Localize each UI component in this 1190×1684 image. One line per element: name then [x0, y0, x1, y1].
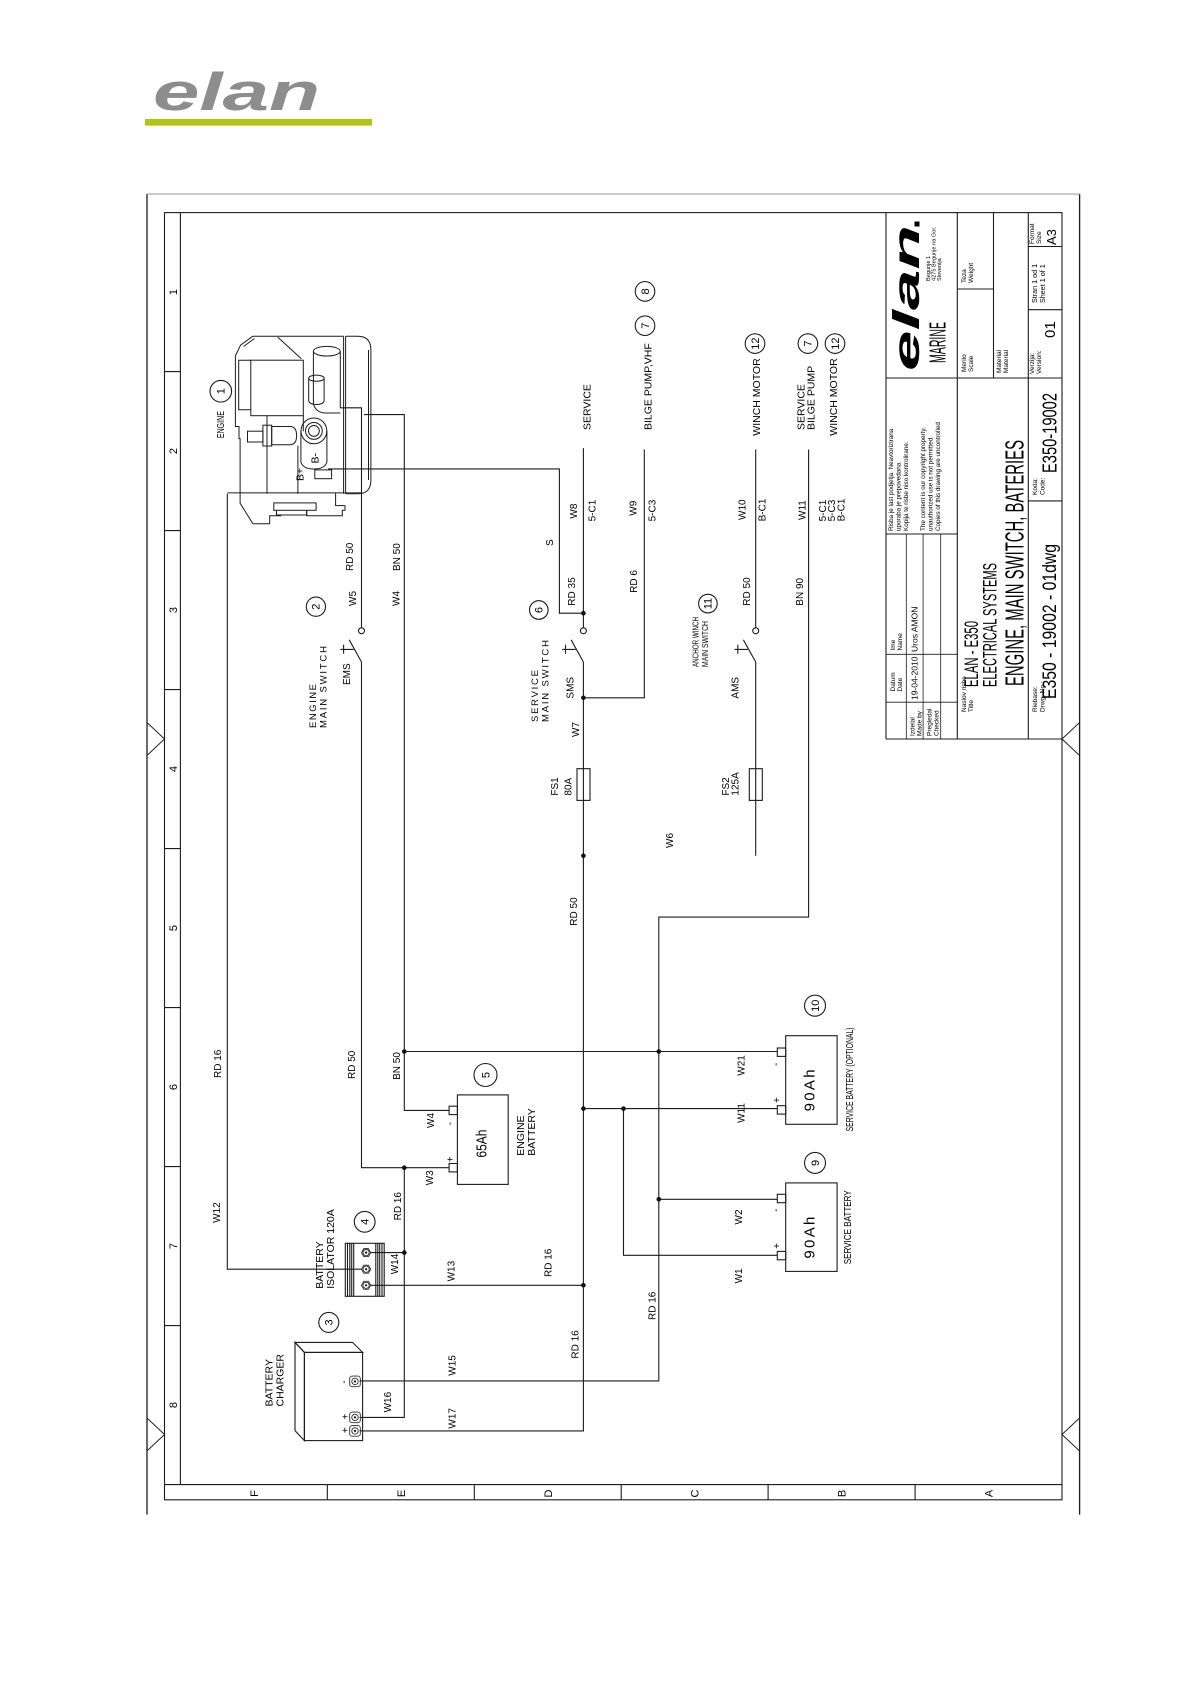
- svg-text:3: 3: [168, 607, 180, 613]
- svg-text:W15: W15: [448, 1355, 459, 1376]
- svg-text:7: 7: [640, 323, 652, 329]
- svg-text:D: D: [543, 1489, 555, 1497]
- svg-text:RD 35: RD 35: [567, 577, 578, 606]
- svg-text:Material: Material: [1003, 349, 1010, 373]
- wire W12 RD16: engine alternator to isolator middle terminal: [227, 494, 361, 1269]
- svg-text:RD 16: RD 16: [393, 1192, 404, 1221]
- svg-text:ANCHOR WINCH: ANCHOR WINCH: [692, 617, 701, 667]
- svg-text:Verzija:: Verzija:: [1029, 352, 1036, 374]
- svg-text:B-C1: B-C1: [836, 498, 847, 521]
- svg-text:BN 50: BN 50: [392, 1052, 403, 1080]
- svg-text:10: 10: [810, 1000, 822, 1012]
- svg-text:Slovenija: Slovenija: [937, 257, 943, 281]
- wire W7 RD50: SMS down through FS1 to bottom rail: [360, 662, 584, 1431]
- svg-text:6: 6: [534, 607, 546, 613]
- svg-text:Teza: Teza: [961, 269, 968, 283]
- svg-text:B-C1: B-C1: [758, 498, 769, 521]
- svg-text:Name: Name: [897, 633, 904, 651]
- svg-text:W17: W17: [448, 1408, 459, 1429]
- svg-text:W12: W12: [212, 1202, 223, 1223]
- svg-text:W6: W6: [665, 833, 676, 848]
- svg-text:W9: W9: [629, 500, 640, 515]
- svg-text:12: 12: [830, 337, 842, 349]
- elan company logo: [145, 63, 372, 126]
- svg-text:+: +: [772, 1243, 783, 1249]
- svg-text:W11: W11: [736, 1103, 747, 1123]
- svg-text:BN 50: BN 50: [392, 543, 403, 571]
- svg-text:BATTERY: BATTERY: [526, 1108, 538, 1155]
- svg-text:elan: elan: [886, 225, 927, 371]
- svg-text:Pregledal: Pregledal: [927, 708, 934, 736]
- svg-text:SERVICE: SERVICE: [582, 384, 594, 430]
- drawing frame: [147, 194, 1080, 1515]
- svg-text:Version:: Version:: [1036, 350, 1043, 374]
- component number 8 (vhf): [635, 282, 655, 302]
- svg-text:Riebase:: Riebase:: [1032, 686, 1039, 712]
- svg-text:5-C3: 5-C3: [648, 499, 659, 521]
- svg-text:5: 5: [168, 925, 180, 931]
- fuse FS1 80A: [577, 769, 590, 801]
- svg-text:Merilo: Merilo: [961, 354, 968, 372]
- svg-text:65Ah: 65Ah: [474, 1130, 491, 1158]
- svg-text:WINCH MOTOR: WINCH MOTOR: [751, 358, 763, 436]
- wire W1: service battery plus: [624, 1109, 778, 1256]
- svg-text:6: 6: [168, 1084, 180, 1090]
- svg-text:RD 50: RD 50: [345, 542, 356, 571]
- svg-text:Made by: Made by: [917, 710, 924, 736]
- component number 5: [474, 1064, 497, 1087]
- svg-text:11: 11: [703, 598, 715, 609]
- wire W2: service battery minus: [659, 1198, 778, 1200]
- svg-text:Uros AMON: Uros AMON: [910, 607, 920, 652]
- svg-text:90Ah: 90Ah: [801, 1217, 818, 1259]
- svg-text:Risba je last podjetja. Neavto: Risba je last podjetja. Neavtorizirana: [888, 428, 895, 531]
- svg-text:F: F: [249, 1490, 261, 1497]
- svg-text:Format: Format: [1029, 223, 1036, 244]
- svg-text:7: 7: [168, 1243, 180, 1249]
- svg-text:W13: W13: [446, 1260, 457, 1281]
- component number 2: [306, 597, 325, 616]
- svg-text:W5: W5: [348, 591, 359, 606]
- svg-text:AMS: AMS: [731, 677, 742, 699]
- svg-text:BN 90: BN 90: [795, 577, 806, 605]
- component number 10: [805, 995, 826, 1016]
- svg-text:SERVICE BATTERY (OPTIONAL): SERVICE BATTERY (OPTIONAL): [845, 1027, 856, 1131]
- svg-text:MARINE: MARINE: [925, 322, 951, 363]
- svg-text:19-04-2010: 19-04-2010: [910, 656, 920, 700]
- svg-text:W3: W3: [425, 1170, 436, 1185]
- svg-text:7: 7: [803, 341, 815, 347]
- wire S RD: engine B+ to service switch node: [328, 469, 583, 613]
- battery charger: [295, 1342, 363, 1440]
- svg-text:CHARGER: CHARGER: [275, 1354, 287, 1407]
- svg-text:SMS: SMS: [566, 677, 577, 699]
- switch AWS (anchor winch main switch): [753, 628, 759, 634]
- wire W13: isolator lower terminal to RD50 bus: [372, 1284, 584, 1286]
- component number 1: [210, 380, 232, 402]
- svg-text:-: -: [771, 1209, 782, 1212]
- component number 6: [530, 601, 549, 620]
- svg-text:elan: elan: [153, 63, 320, 122]
- svg-text:Checked: Checked: [934, 710, 941, 736]
- wire BN50 branch: engine battery minus to minus bus: [404, 1051, 659, 1053]
- component number 3: [319, 1312, 339, 1332]
- component number 7 (bilge pump 2): [798, 334, 818, 354]
- svg-text:Weight: Weight: [968, 263, 975, 283]
- svg-text:W10: W10: [738, 499, 749, 520]
- svg-text:A3: A3: [1044, 229, 1059, 245]
- switch EMS (engine main switch): [359, 628, 365, 634]
- svg-text:5-C1: 5-C1: [588, 499, 599, 521]
- svg-text:W2: W2: [734, 1209, 745, 1224]
- svg-text:01: 01: [1042, 321, 1059, 338]
- svg-text:RD 16: RD 16: [543, 1248, 554, 1277]
- svg-text:RD 6: RD 6: [629, 570, 640, 593]
- svg-text:3: 3: [324, 1319, 336, 1325]
- svg-text:ENGINE: ENGINE: [216, 411, 227, 438]
- svg-text:ISOLATOR 120A: ISOLATOR 120A: [325, 1209, 337, 1289]
- wire W8 service load line: [582, 448, 584, 627]
- svg-text:MAIN SWITCH: MAIN SWITCH: [319, 646, 330, 728]
- svg-text:90Ah: 90Ah: [801, 1069, 818, 1111]
- service battery 90Ah: [786, 1183, 837, 1272]
- svg-text:WINCH MOTOR: WINCH MOTOR: [828, 358, 840, 436]
- svg-text:+: +: [341, 1414, 352, 1420]
- component number 4: [354, 1211, 375, 1232]
- wire W21: optional battery minus: [659, 1051, 778, 1053]
- svg-text:MAIN SWITCH: MAIN SWITCH: [701, 621, 710, 667]
- svg-text:80A: 80A: [564, 777, 575, 795]
- svg-text:8: 8: [640, 288, 652, 294]
- svg-text:W11: W11: [798, 500, 809, 520]
- svg-text:RD 16: RD 16: [571, 1330, 582, 1359]
- svg-text:E350 - 19002 - 01dwg: E350 - 19002 - 01dwg: [1040, 544, 1061, 699]
- svg-text:+: +: [341, 1427, 352, 1433]
- svg-text:4: 4: [360, 1219, 372, 1225]
- svg-text:RD 50: RD 50: [347, 1050, 358, 1079]
- engine assembly drawing (component 1): [227, 336, 371, 524]
- svg-text:BILGE PUMP: BILGE PUMP: [805, 366, 817, 430]
- svg-text:Kopija te risbe niso kontrolir: Kopija te risbe niso kontrolirane.: [903, 441, 910, 531]
- svg-text:125A: 125A: [731, 772, 742, 796]
- svg-text:8: 8: [168, 1402, 180, 1408]
- fuse FS2 125A: [749, 769, 762, 801]
- svg-text:S: S: [545, 539, 556, 546]
- switch SMS (service main switch): [580, 628, 586, 634]
- svg-text:Scale: Scale: [968, 355, 975, 372]
- svg-text:EMS: EMS: [342, 663, 353, 685]
- wire W3 RD50: EMS to engine battery plus: [362, 662, 450, 1168]
- svg-text:W1: W1: [734, 1268, 745, 1283]
- svg-text:-: -: [339, 1380, 350, 1383]
- svg-text:SERVICE BATTERY: SERVICE BATTERY: [843, 1190, 854, 1264]
- svg-text:A: A: [984, 1489, 996, 1497]
- svg-text:B+: B+: [294, 468, 306, 481]
- svg-text:B-: B-: [310, 452, 322, 463]
- svg-text:B: B: [837, 1490, 849, 1497]
- svg-text:unauthorized use is not permit: unauthorized use is not permitted.: [928, 436, 935, 531]
- svg-text:+: +: [446, 1156, 457, 1162]
- component number 12 (winch motor 2): [825, 334, 845, 354]
- svg-text:Datum: Datum: [890, 672, 897, 691]
- svg-text:E: E: [396, 1490, 408, 1497]
- svg-text:FS1: FS1: [550, 777, 561, 796]
- svg-text:Material: Material: [996, 349, 1003, 373]
- svg-text:RD 50: RD 50: [742, 577, 753, 606]
- svg-text:ELECTRICAL SYSTEMS: ELECTRICAL SYSTEMS: [980, 563, 1001, 687]
- svg-text:1: 1: [216, 388, 228, 394]
- svg-text:Date: Date: [897, 677, 904, 691]
- svg-text:MAIN SWITCH: MAIN SWITCH: [541, 640, 552, 722]
- svg-text:+: +: [772, 1097, 783, 1103]
- wire W11 BN90 minus return line: [360, 450, 809, 1381]
- svg-text:Koda:: Koda:: [1032, 478, 1039, 495]
- svg-text:E350-19002: E350-19002: [1040, 393, 1062, 473]
- svg-text:W7: W7: [571, 722, 582, 737]
- svg-text:uporaba je prepovedana.: uporaba je prepovedana.: [896, 461, 903, 531]
- svg-text:W14: W14: [390, 1253, 401, 1274]
- svg-text:ENGINE, MAIN SWITCH, BATERIES: ENGINE, MAIN SWITCH, BATERIES: [1000, 440, 1030, 686]
- component number 12 (winch motor): [745, 334, 765, 354]
- svg-text:1: 1: [168, 289, 180, 295]
- svg-text:-: -: [445, 1122, 456, 1125]
- svg-text:Izdelal: Izdelal: [910, 717, 917, 736]
- junction dots: [581, 611, 586, 616]
- svg-text:4: 4: [168, 766, 180, 772]
- svg-text:Title: Title: [968, 700, 975, 712]
- engine battery 65Ah: [457, 1095, 508, 1185]
- svg-text:C: C: [690, 1489, 702, 1497]
- svg-text:W4: W4: [392, 591, 403, 606]
- battery isolator 120A: [345, 1243, 384, 1296]
- title block: [886, 213, 1062, 739]
- wire RD16: battery plus rail down to isolator and charger: [360, 1168, 405, 1418]
- svg-text:W21: W21: [736, 1055, 747, 1076]
- wire W11 optional battery plus from RD50 bus: [583, 1108, 777, 1110]
- component number 7 (bilge pump): [635, 316, 655, 336]
- svg-text:Sheet 1 of 1: Sheet 1 of 1: [1038, 264, 1047, 303]
- svg-text:W8: W8: [569, 503, 580, 518]
- wire W5 RD50: engine to EMS switch: [340, 408, 362, 628]
- svg-text:12: 12: [750, 337, 762, 349]
- svg-text:The content is our copyright p: The content is our copyright property,: [920, 427, 927, 531]
- svg-text:2: 2: [168, 448, 180, 454]
- wire W6: AWS through fuse FS2 to open end: [755, 662, 757, 856]
- svg-text:Size: Size: [1036, 231, 1043, 244]
- svg-text:RD 16: RD 16: [648, 1291, 659, 1320]
- wire W10 winch motor line through FS2: [755, 450, 757, 628]
- svg-text:-: -: [771, 1063, 782, 1066]
- component number 11: [699, 594, 718, 613]
- svg-text:BILGE PUMP,VHF: BILGE PUMP,VHF: [642, 343, 654, 430]
- service battery optional 90Ah: [786, 1036, 837, 1125]
- svg-text:5: 5: [480, 1072, 492, 1078]
- wire W9 bilge pump line: [583, 450, 644, 698]
- svg-text:RD 50: RD 50: [569, 897, 580, 926]
- svg-text:W4: W4: [426, 1113, 437, 1128]
- svg-text:2: 2: [311, 604, 323, 610]
- svg-text:Code:: Code:: [1040, 477, 1047, 495]
- frame centering arrows: [148, 723, 1080, 1451]
- wire W4 BN50: engine Bminus down to engine battery minus: [364, 415, 449, 1111]
- svg-text:Ime: Ime: [890, 639, 897, 650]
- svg-text:W16: W16: [383, 1391, 394, 1412]
- svg-text:RD 16: RD 16: [213, 1049, 224, 1078]
- svg-text:Copies of this drawing are unc: Copies of this drawing are uncontrolled: [935, 422, 942, 531]
- component number 9: [805, 1152, 826, 1173]
- svg-text:9: 9: [810, 1160, 822, 1166]
